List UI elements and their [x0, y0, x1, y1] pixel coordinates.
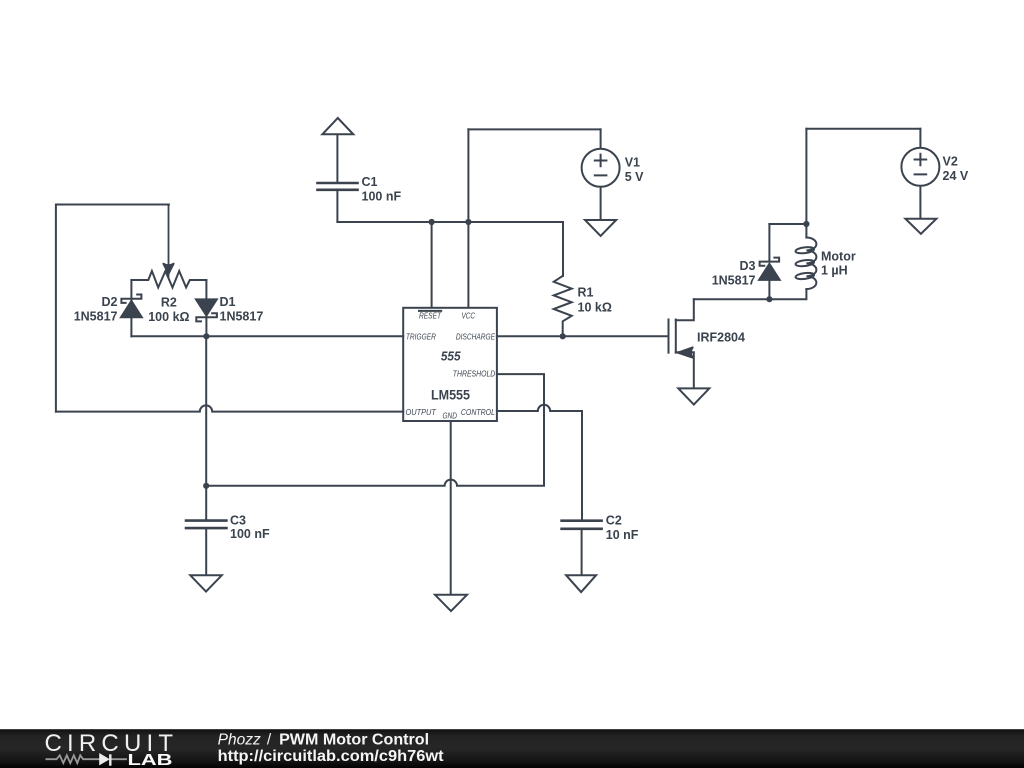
- wire node to R1 top: [562, 222, 564, 276]
- wire threshold net with hop: [206, 374, 544, 486]
- svg-text:Phozz / PWM Motor Control: Phozz / PWM Motor Control: [218, 731, 429, 748]
- wire trigger node down: [205, 336, 207, 486]
- wire R2 right leg: [205, 280, 207, 336]
- label LM555 name: [431, 388, 470, 403]
- svg-text:VCC: VCC: [462, 311, 476, 321]
- footer title line: [218, 731, 429, 748]
- svg-text:10 nF: 10 nF: [606, 528, 639, 542]
- logo CIRCUIT text: [45, 730, 174, 757]
- wire motor node up: [805, 129, 807, 238]
- svg-text:GND: GND: [442, 410, 457, 420]
- svg-text:C2: C2: [606, 514, 622, 528]
- svg-text:V2: V2: [943, 155, 958, 169]
- svg-text:D1: D1: [220, 295, 236, 309]
- label V2 value: [943, 155, 969, 184]
- svg-text:THRESHOLD: THRESHOLD: [453, 369, 496, 379]
- capacitor C2: [562, 521, 602, 576]
- svg-text:100 nF: 100 nF: [230, 527, 270, 541]
- svg-text:100 nF: 100 nF: [362, 190, 402, 204]
- svg-text:DISCHARGE: DISCHARGE: [456, 332, 495, 342]
- wire left loop from output: [56, 205, 169, 412]
- svg-text:10 kΩ: 10 kΩ: [578, 301, 612, 315]
- svg-text:OUTPUT: OUTPUT: [406, 407, 437, 417]
- resistor R1: [554, 276, 572, 336]
- capacitor C1: [318, 183, 358, 222]
- svg-text:LM555: LM555: [431, 388, 470, 403]
- power flag VCC top: [322, 118, 353, 183]
- node VCC junction: [465, 219, 471, 225]
- inductor Motor: [795, 238, 816, 290]
- pin THRESHOLD label: [453, 369, 496, 379]
- ground under V1: [585, 220, 616, 236]
- wire top to V1: [468, 128, 600, 130]
- label Motor value: [821, 249, 856, 277]
- transistor Q1 IRF2804: [669, 299, 694, 388]
- svg-text:24 V: 24 V: [943, 169, 969, 183]
- label IRF2804: [697, 331, 745, 345]
- svg-text:RESET: RESET: [419, 311, 442, 321]
- wire trigger left: [131, 335, 403, 337]
- ground under C2: [566, 575, 596, 592]
- pin OUTPUT label: [406, 407, 437, 417]
- label D2 value: [74, 295, 118, 324]
- node motor top junction: [803, 221, 809, 227]
- label R2 value: [148, 296, 189, 325]
- pin VCC label: [462, 311, 476, 321]
- svg-text:LAB: LAB: [128, 752, 173, 768]
- ground under 555: [435, 595, 467, 611]
- label D3 value: [712, 259, 756, 288]
- label C3 value: [230, 513, 270, 541]
- label C2 value: [606, 514, 639, 542]
- svg-text:CONTROL: CONTROL: [461, 407, 495, 417]
- pin GND label: [442, 410, 457, 420]
- svg-text:555: 555: [441, 350, 462, 364]
- node C3 junction: [203, 483, 209, 489]
- svg-text:R1: R1: [578, 286, 594, 300]
- logo resistor-diode line: [46, 754, 128, 766]
- svg-text:100 kΩ: 100 kΩ: [148, 310, 189, 324]
- label D1 value: [220, 295, 264, 324]
- node R1 / discharge junction: [560, 333, 566, 339]
- wire drain node: [694, 289, 807, 299]
- wire motor top to V2: [806, 128, 920, 130]
- svg-text:1N5817: 1N5817: [220, 310, 264, 324]
- diode D1 schottky: [196, 299, 217, 321]
- diode D2 schottky: [121, 295, 142, 318]
- logo LAB text: [128, 752, 173, 768]
- node D3 bottom junction: [766, 296, 772, 302]
- svg-text:5 V: 5 V: [625, 170, 644, 184]
- voltage source V2: [901, 129, 939, 219]
- node RESET junction: [429, 219, 435, 225]
- wire control net with hop: [497, 405, 582, 521]
- label R1 value: [578, 286, 612, 315]
- footer bar: [0, 729, 1024, 768]
- svg-text:C1: C1: [362, 175, 378, 189]
- wire RESET up: [431, 222, 433, 308]
- wire GND pin down: [450, 421, 452, 595]
- svg-text:IRF2804: IRF2804: [697, 331, 745, 345]
- pin DISCHARGE label: [456, 332, 495, 342]
- svg-text:D3: D3: [740, 259, 756, 273]
- svg-text:D2: D2: [102, 295, 118, 309]
- label 555 type: [441, 350, 462, 364]
- diode D3 schottky: [759, 224, 780, 299]
- footer url line: [218, 748, 444, 765]
- capacitor C3: [186, 486, 226, 576]
- wire R2 left leg: [130, 280, 132, 336]
- pin CONTROL label: [461, 407, 495, 417]
- wire output with hop: [56, 405, 403, 411]
- wire D3 top to motor node: [769, 223, 806, 225]
- svg-text:Motor: Motor: [821, 249, 856, 263]
- svg-text:1 µH: 1 µH: [821, 264, 848, 278]
- ground under C3: [190, 575, 222, 591]
- node trigger junction: [203, 333, 209, 339]
- potentiometer R2 wiper arrow: [163, 205, 173, 277]
- voltage source V1: [582, 129, 620, 220]
- wire VCC vertical: [467, 129, 469, 308]
- svg-text:V1: V1: [625, 156, 640, 170]
- pin TRIGGER label: [406, 332, 436, 342]
- ground under MOSFET: [678, 388, 709, 404]
- label V1 value: [625, 156, 644, 185]
- wire C1 to RESET/VCC/R1 node: [337, 221, 563, 223]
- wire discharge to gate: [497, 335, 669, 337]
- svg-text:TRIGGER: TRIGGER: [406, 332, 436, 342]
- svg-text:http://circuitlab.com/c9h76wt: http://circuitlab.com/c9h76wt: [218, 748, 444, 765]
- svg-text:R2: R2: [161, 296, 177, 310]
- potentiometer R2 body: [131, 271, 206, 288]
- IC U1 LM555 body: [403, 308, 497, 421]
- pin RESET label: [419, 311, 442, 321]
- svg-text:1N5817: 1N5817: [74, 310, 118, 324]
- svg-text:1N5817: 1N5817: [712, 273, 756, 287]
- ground under V2: [905, 219, 936, 234]
- label C1 value: [362, 175, 402, 204]
- svg-text:C3: C3: [230, 513, 246, 527]
